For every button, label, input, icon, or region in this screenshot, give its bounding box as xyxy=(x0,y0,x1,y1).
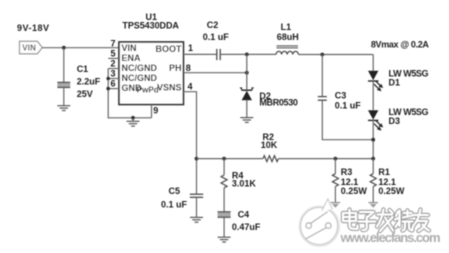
capacitor C4 xyxy=(218,212,231,217)
svg-text:MBR0530: MBR0530 xyxy=(259,98,298,108)
ground D2 xyxy=(240,118,253,123)
svg-text:TPS5430DDA: TPS5430DDA xyxy=(122,20,179,30)
wire feedback line right xyxy=(278,158,373,160)
svg-text:BOOT: BOOT xyxy=(156,44,183,54)
node PH junction xyxy=(245,71,249,75)
svg-text:D1: D1 xyxy=(389,77,401,87)
capacitor C2 xyxy=(217,49,220,60)
wire R3 top xyxy=(334,159,336,174)
node R1/LED junction xyxy=(371,157,375,161)
wire R4 top xyxy=(223,159,225,175)
label R1 value xyxy=(378,167,405,196)
svg-text:8: 8 xyxy=(186,63,191,73)
wire C1 top xyxy=(63,48,65,83)
svg-text:9V-18V: 9V-18V xyxy=(17,23,49,33)
resistor R2 xyxy=(263,156,278,162)
wire R3 bottom arrow xyxy=(331,187,340,208)
svg-text:0.25W: 0.25W xyxy=(341,186,368,196)
wire feedback line left xyxy=(197,158,264,160)
node C3 return junction xyxy=(371,138,375,142)
svg-text:ENA: ENA xyxy=(122,53,142,63)
svg-text:0.1 uF: 0.1 uF xyxy=(335,100,362,110)
svg-text:3.01K: 3.01K xyxy=(232,178,257,188)
svg-text:C1: C1 xyxy=(77,64,89,74)
node ground junction under U1 xyxy=(131,116,135,120)
svg-text:PwPd: PwPd xyxy=(137,86,159,95)
wire C2 to L1 xyxy=(220,53,276,55)
wire R1 top xyxy=(372,159,374,174)
svg-text:0.47uF: 0.47uF xyxy=(232,222,261,232)
wire VIN to pin7 xyxy=(42,47,119,49)
wire C5 bottom xyxy=(196,198,198,218)
wire D2 bottom xyxy=(246,100,248,117)
capacitor C5 xyxy=(190,194,203,197)
label C2 value xyxy=(203,20,230,42)
svg-text:68uH: 68uH xyxy=(277,32,299,42)
wire D2 top xyxy=(246,54,248,90)
pin 6 GND stub xyxy=(108,88,119,90)
wire C3 bottom to LED return xyxy=(322,100,373,139)
svg-text:C4: C4 xyxy=(238,209,250,219)
svg-text:7: 7 xyxy=(111,38,116,48)
svg-text:10K: 10K xyxy=(261,140,278,150)
watermark logo xyxy=(300,199,339,246)
label L1 value xyxy=(277,22,299,42)
wire C1 bottom xyxy=(63,87,65,105)
svg-text:0.1 uF: 0.1 uF xyxy=(161,199,188,209)
wire D3 to feedback xyxy=(372,120,374,158)
svg-text:8Vmax @ 0.2A: 8Vmax @ 0.2A xyxy=(371,40,430,50)
LED D3 xyxy=(368,110,383,130)
svg-text:VIN: VIN xyxy=(122,43,137,53)
LED D1 xyxy=(368,71,383,91)
wire R1 bottom arrow xyxy=(369,187,378,208)
label C5 value xyxy=(161,186,188,210)
wire C4 bottom xyxy=(223,217,225,237)
svg-text:D3: D3 xyxy=(389,116,401,126)
label R4 value xyxy=(232,170,257,188)
label C1 value xyxy=(77,64,101,99)
label C4 value xyxy=(232,209,261,232)
pin 5 ENA stub xyxy=(108,57,119,59)
wire R4 to C4 xyxy=(223,188,225,212)
svg-text:R3: R3 xyxy=(341,167,353,177)
svg-text:3: 3 xyxy=(111,69,116,79)
pin 2 NC/GND stub xyxy=(108,68,119,70)
label D3 xyxy=(389,107,429,126)
diode D2 MBR0530 xyxy=(240,88,254,100)
svg-text:9: 9 xyxy=(153,106,158,116)
svg-text:L1: L1 xyxy=(281,22,292,32)
svg-text:2.2uF: 2.2uF xyxy=(77,77,101,87)
svg-text:0.1 uF: 0.1 uF xyxy=(203,32,230,42)
wire output to D1 xyxy=(372,55,374,71)
svg-text:6: 6 xyxy=(111,79,116,89)
pin 9 PwPd stub xyxy=(151,105,153,118)
label R3 value xyxy=(341,167,368,196)
ground C5 xyxy=(190,217,203,222)
svg-text:25V: 25V xyxy=(77,89,93,99)
wire L1 to output node xyxy=(298,54,373,56)
svg-text:C5: C5 xyxy=(169,186,181,196)
inductor L1 xyxy=(276,46,298,55)
svg-text:C2: C2 xyxy=(207,20,219,30)
svg-text:VIN: VIN xyxy=(22,44,36,53)
svg-text:VSNS: VSNS xyxy=(157,83,182,93)
watermark chinese text xyxy=(343,210,429,232)
node pin6 junction xyxy=(106,87,110,91)
node junction VIN/C1 xyxy=(62,46,66,50)
svg-text:C3: C3 xyxy=(335,90,347,100)
resistor R3 xyxy=(332,174,338,187)
node output junction xyxy=(320,53,324,57)
wire C3 top xyxy=(321,55,323,97)
wire BOOT to C2 xyxy=(183,53,216,55)
ground C4 xyxy=(218,237,231,242)
wire D1 to D3 xyxy=(372,81,374,110)
svg-text:5: 5 xyxy=(111,49,116,59)
wire PH to D2 xyxy=(183,72,246,74)
svg-text:NC/GND: NC/GND xyxy=(122,73,158,83)
resistor R1 xyxy=(370,174,376,187)
wire left bus pins 2-3-6 xyxy=(108,69,151,118)
svg-text:0.25W: 0.25W xyxy=(378,186,405,196)
svg-text:1: 1 xyxy=(188,43,193,53)
node VIN input flag xyxy=(20,41,43,54)
svg-text:PH: PH xyxy=(169,63,182,73)
svg-text:4: 4 xyxy=(188,82,193,92)
ground C1 xyxy=(57,106,70,111)
label R2 value xyxy=(261,132,278,150)
resistor R4 xyxy=(221,175,227,188)
label D1 xyxy=(389,68,429,87)
label C3 value xyxy=(335,90,362,110)
pin 3 NC/GND stub xyxy=(108,78,119,80)
node pin3 junction xyxy=(106,77,110,81)
node R4 junction xyxy=(222,157,226,161)
wire VSNS to feedback node xyxy=(183,92,196,194)
node VSNS junction xyxy=(195,157,199,161)
svg-text:R1: R1 xyxy=(378,167,390,177)
capacitor C3 xyxy=(318,97,327,101)
svg-text:www.elecfans.com: www.elecfans.com xyxy=(340,230,441,245)
op-amp U1 TPS5430DDA body xyxy=(119,42,183,105)
node BOOT/PH/D2 junction xyxy=(245,53,249,57)
svg-text:2: 2 xyxy=(111,59,116,69)
ground U1 xyxy=(127,118,140,126)
label D2 value xyxy=(259,91,298,108)
node R3 junction xyxy=(334,157,338,161)
capacitor C1 xyxy=(57,82,70,87)
svg-text:NC/GND: NC/GND xyxy=(122,63,158,73)
